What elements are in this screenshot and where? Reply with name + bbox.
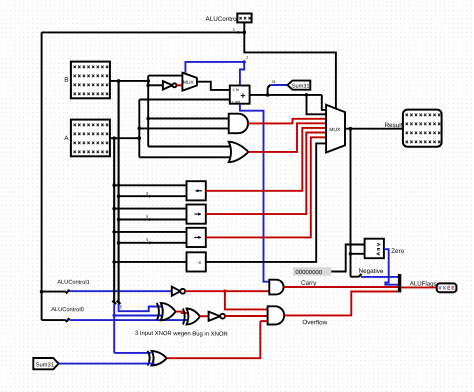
svg-text:c in: c in	[233, 87, 239, 92]
node B bus2 junction	[117, 79, 121, 83]
wire NOT out red	[177, 84, 183, 86]
wire shifter3 inputs	[114, 231, 186, 233]
svg-text:ALUControl1: ALUControl1	[57, 280, 90, 286]
wire shifter2 out red	[206, 133, 326, 215]
svg-text:5: 5	[146, 192, 148, 196]
svg-text:Sum31: Sum31	[292, 84, 310, 90]
wire negative blue	[361, 276, 398, 278]
output pin ALUFlags	[437, 283, 457, 292]
wire X2 out red	[200, 315, 209, 317]
svg-text:3 Input XNOR wegen Bug in XNOR: 3 Input XNOR wegen Bug in XNOR	[135, 331, 228, 338]
wire select blue from small mux	[185, 62, 244, 73]
svg-text:ALUFlags: ALUFlags	[410, 280, 437, 287]
wire shifter1 out red	[206, 128, 326, 191]
wire ALUControl left rail	[41, 32, 43, 320]
wire ALUControl0 branch	[42, 319, 66, 321]
wire A gate vertical	[138, 100, 140, 158]
input pin B	[71, 62, 110, 99]
wire adder c-out blue to carry gate	[240, 104, 269, 282]
wire X1 out red	[176, 312, 188, 313]
negator U4	[187, 252, 206, 271]
shifter S3	[187, 228, 206, 247]
wire result to comparator	[351, 253, 365, 255]
wire adder result	[250, 94, 322, 96]
node N1 out junction	[223, 290, 226, 293]
splitter Sum31 tap	[267, 88, 269, 95]
AND gate overflow	[268, 306, 285, 324]
width marker shift1	[149, 195, 153, 198]
svg-text:+: +	[240, 91, 245, 101]
node select blue junction	[243, 60, 246, 63]
svg-text:ALUControl: ALUControl	[205, 16, 238, 23]
wire shifter1 inputs	[114, 184, 186, 186]
wire shifter2 inputs	[114, 208, 186, 210]
node comparator feed junction	[349, 252, 353, 256]
svg-text:Negative: Negative	[359, 268, 384, 275]
ALUControl input pin stub wire	[243, 22, 245, 32]
wire B output	[110, 80, 148, 82]
svg-text:Zero: Zero	[391, 248, 405, 255]
wire bus1 A vertical	[113, 138, 115, 302]
NOT gate N1	[172, 287, 181, 296]
input pin A	[71, 120, 110, 157]
svg-text:00000000: 00000000	[295, 270, 322, 276]
wire B to OR input 1	[148, 146, 230, 148]
wire ALUControl1 branch	[42, 291, 66, 293]
svg-text:Carry: Carry	[301, 280, 317, 287]
wire constant to comparator	[331, 245, 364, 272]
XOR gate X2	[183, 309, 185, 325]
svg-text:5: 5	[146, 215, 148, 219]
constant 00000000	[293, 267, 331, 275]
wire blue to Sum31 tunnel	[270, 84, 287, 86]
wire B to AND input 1	[148, 118, 229, 120]
wire negator out	[206, 143, 326, 262]
wire carry out red	[284, 286, 399, 288]
node NOT feed junction	[146, 84, 150, 88]
mux U1 big	[326, 105, 345, 153]
node adder out junction	[305, 93, 309, 97]
XOR gate X3	[148, 351, 150, 366]
wire overflow out red	[284, 292, 398, 316]
tunnel Sum31 left	[33, 358, 58, 369]
comparator U5	[365, 239, 384, 259]
svg-text:5: 5	[146, 238, 148, 242]
wire ALUControl horizontal top	[42, 31, 245, 33]
wire bus1 blue vertical	[113, 304, 115, 353]
wire N2 out red to overflow gate	[224, 315, 267, 317]
wire A output	[110, 137, 140, 139]
wire blue to adder c-in	[240, 62, 244, 86]
wire N1 out red to carry gate	[185, 290, 270, 292]
node result junction	[349, 127, 353, 131]
XOR gate X1	[157, 303, 159, 320]
mux U2 small	[182, 73, 197, 91]
width marker shift3	[149, 241, 153, 244]
node AND feed junction	[146, 117, 150, 121]
svg-text:B: B	[64, 77, 68, 84]
wire A31 to bottom XOR	[114, 352, 151, 354]
node A junction	[138, 136, 142, 140]
wire shifter3 out red	[206, 137, 326, 237]
NOT gate B inverter	[163, 81, 173, 89]
node ALUControl junction	[243, 31, 247, 35]
svg-text:ALUControl0: ALUControl0	[51, 307, 84, 313]
input pin ALUControl	[237, 14, 251, 23]
AND gate carry	[269, 280, 283, 295]
splitter bus2 end	[117, 301, 121, 305]
wire B to small mux input 0	[148, 75, 182, 77]
wire A31 to XNOR in2	[114, 315, 164, 317]
wire negator input	[114, 261, 186, 263]
width marker ALUControl wire	[238, 31, 242, 34]
wire X3 out red	[167, 321, 260, 358]
wire result out	[345, 128, 403, 130]
splitter ALUFlags combiner	[398, 274, 401, 292]
svg-text:31: 31	[272, 80, 276, 84]
wire A to adder input	[139, 99, 230, 101]
node A bus1 junction	[112, 136, 116, 140]
wire A to AND input 2	[139, 127, 228, 129]
wire result to negative splitter	[351, 276, 359, 278]
wire AND out red to mux in3	[248, 119, 326, 124]
wire ALUControl to big mux select	[244, 32, 336, 108]
svg-text:Overflow: Overflow	[302, 319, 327, 326]
wire ALUFlags red out	[401, 286, 437, 288]
wire B gate vertical	[147, 76, 149, 147]
wire result corner to mux in1	[322, 95, 326, 110]
wire N1 branch to overflow gate	[225, 291, 268, 309]
tunnel Sum31 right	[287, 81, 310, 90]
wire bus2 B vertical	[118, 81, 120, 302]
node A31 junction	[113, 314, 116, 317]
svg-text:Sum31: Sum31	[36, 362, 54, 368]
svg-text:3: 3	[233, 28, 235, 32]
wire ALUControl1 blue to NOT	[70, 290, 172, 292]
wire B to NOT input	[148, 84, 163, 86]
shifter S1	[187, 181, 206, 200]
NOT gate N2	[209, 312, 221, 321]
splitter negative	[359, 274, 362, 277]
svg-text:-x: -x	[197, 261, 202, 266]
AND gate G1	[229, 114, 248, 134]
wire small mux out to adder	[197, 82, 230, 90]
wire Sum31 blue to X3	[59, 363, 155, 365]
splitter ALUControl0	[66, 318, 70, 322]
svg-text:MUX: MUX	[329, 127, 341, 133]
wire ALUControl0 blue to XOR2	[70, 319, 189, 321]
wire bottom xor to overflow in3	[260, 320, 267, 322]
node AND feed junction 2	[138, 127, 142, 131]
wire A to OR input 2	[139, 156, 230, 158]
shifter S2	[187, 205, 206, 224]
node ALUControl1 junction	[40, 290, 44, 294]
svg-text:Result: Result	[384, 122, 402, 129]
wire OR out red to mux in4	[249, 123, 327, 152]
wire result down	[350, 129, 352, 277]
wire zero blue	[384, 249, 399, 285]
width marker shift2	[149, 218, 153, 221]
svg-text:3: 3	[246, 56, 248, 60]
wire B31 blue to XNOR in1	[119, 304, 164, 311]
adder U3	[230, 86, 250, 104]
splitter bus1 end	[112, 301, 116, 305]
OR gate G2	[229, 142, 249, 162]
splitter ALUControl1	[66, 290, 70, 294]
svg-text:MUX: MUX	[183, 80, 195, 86]
wire result corner to mux in2	[307, 95, 327, 114]
node B junction	[146, 79, 150, 83]
output pin Result	[403, 110, 442, 147]
